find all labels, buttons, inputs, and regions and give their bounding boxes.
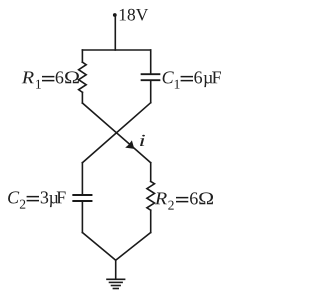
wire lower-right branch top: [150, 163, 152, 182]
label i: [140, 135, 145, 146]
capacitor C1: [142, 74, 160, 80]
wire bottom junction to ground: [115, 260, 117, 279]
wire below R1: [81, 92, 83, 103]
wire diagonal lower-right to bottom junction: [116, 233, 151, 261]
label R1=6Ohm: [22, 71, 79, 88]
wire left branch top: [81, 50, 83, 62]
wire diagonal from C1 branch to lower-left branch (crossing): [82, 103, 150, 163]
resistor R2: [147, 181, 155, 210]
current arrow i: [125, 140, 134, 149]
wire below C2: [81, 202, 83, 233]
label R2=6Ohm: [155, 192, 213, 209]
ground: [107, 279, 125, 288]
wire top horizontal bus: [82, 49, 150, 51]
capacitor C2: [73, 195, 91, 201]
label C1=6uF: [163, 71, 221, 88]
node 18V terminal dot: [113, 13, 117, 17]
wire diagonal lower-left to bottom junction: [82, 233, 115, 261]
label 18V: [120, 9, 148, 21]
label C2=3uF: [8, 191, 65, 208]
wire lower-left branch top: [81, 163, 83, 194]
wire below C1: [150, 81, 152, 103]
wire right branch top: [150, 50, 152, 73]
wire feed from 18V node down to top bus: [114, 15, 116, 50]
wire diagonal from R1 branch to lower-right branch (crossing): [82, 103, 150, 163]
resistor R1: [79, 62, 87, 92]
wire below R2: [150, 210, 152, 232]
